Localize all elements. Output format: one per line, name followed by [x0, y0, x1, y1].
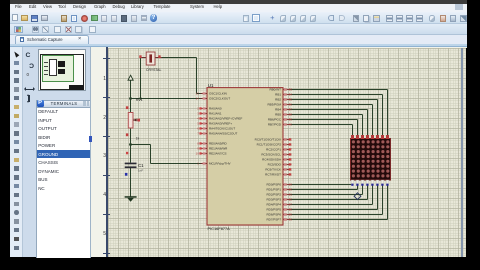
pin 30 RD7/PSP7 (right) [266, 218, 292, 222]
svg-text:14: 14 [196, 97, 200, 101]
left panel background [23, 47, 91, 257]
svg-text:RC2/CCP1: RC2/CCP1 [266, 148, 281, 152]
svg-text:RB6/PGC: RB6/PGC [268, 118, 282, 122]
pin 7 RA5/AN4/SS/C2OUT (left) [197, 132, 237, 136]
main toolbar [10, 12, 467, 24]
svg-text:RB2: RB2 [275, 98, 281, 102]
svg-text:18: 18 [289, 153, 293, 157]
svg-text:37: 37 [289, 108, 293, 112]
wire RD7 to matrix row [291, 185, 388, 220]
title bar dark strip [10, 0, 467, 4]
matrix bottom pin 11 [361, 180, 364, 186]
pin 39 RB6/PGC (right) [268, 118, 293, 122]
sheet right border [461, 48, 463, 257]
svg-text:27: 27 [289, 203, 293, 207]
wire RD5 to matrix row [291, 185, 378, 210]
svg-text:25: 25 [289, 168, 293, 172]
wire RD4 to matrix row [291, 185, 373, 205]
pin 24 RC5/SDO (right) [268, 163, 293, 167]
pin 26 RC7/RX/DT (right) [265, 173, 292, 177]
svg-text:7: 7 [197, 132, 199, 136]
wire RB3 to matrix column [291, 105, 373, 135]
svg-text:28: 28 [289, 208, 293, 212]
svg-text:OSC2/CLKOUT: OSC2/CLKOUT [209, 97, 230, 101]
band under tabs [10, 44, 467, 46]
pin 5 RA3/AN3/VREF+ (left) [197, 122, 232, 126]
matrix bottom pin 14 [376, 180, 379, 186]
wire RB6 to matrix column [291, 120, 358, 135]
svg-text:21: 21 [289, 193, 293, 197]
svg-text:35: 35 [289, 98, 293, 102]
svg-text:3: 3 [197, 112, 199, 116]
svg-text:20: 20 [289, 188, 293, 192]
svg-text:RC4/SDI/SDA: RC4/SDI/SDA [262, 158, 281, 162]
pin 9 RE1/AN6/WR (left) [197, 147, 228, 151]
matrix top pin 7 [381, 135, 384, 139]
pin 10 RE2/AN7/CS (left) [196, 152, 227, 156]
svg-text:10: 10 [196, 152, 200, 156]
pin 27 RD4/PSP4 (right) [266, 203, 292, 207]
svg-text:RD6/PSP6: RD6/PSP6 [266, 213, 281, 217]
svg-text:6: 6 [197, 127, 199, 131]
svg-text:19: 19 [289, 183, 293, 187]
power terminal [128, 75, 133, 80]
wire RD0 to matrix row [291, 184, 353, 186]
matrix bottom pin 13 [371, 180, 374, 186]
pin 37 RB4 (right) [275, 108, 292, 112]
svg-text:39: 39 [289, 118, 293, 122]
svg-text:RD2/PSP2: RD2/PSP2 [266, 193, 281, 197]
matrix top pin 5 [371, 135, 374, 139]
rotate / mirror controls [26, 52, 34, 61]
svg-text:RC3/SCK/SCL: RC3/SCK/SCL [261, 153, 281, 157]
svg-text:RA5/AN4/SS/C2OUT: RA5/AN4/SS/C2OUT [209, 132, 238, 136]
pin 33 RB0/INT (right) [269, 88, 292, 92]
svg-text:RC6/TX/CK: RC6/TX/CK [265, 168, 281, 172]
wire RB2 to matrix column [291, 100, 378, 135]
pin 3 RA1/AN1 (left) [197, 112, 222, 116]
svg-text:RD5/PSP5: RD5/PSP5 [266, 208, 281, 212]
pin 35 RB2 (right) [275, 98, 292, 102]
secondary toolbar [10, 24, 467, 35]
schematic capture tab [15, 35, 90, 44]
op: PIC16F877A body U1 [207, 88, 283, 225]
svg-text:29: 29 [289, 213, 293, 217]
cursor origin marker [354, 193, 361, 200]
ruler frame line [106, 47, 108, 257]
svg-text:RC0/T1OSO/T1CKI: RC0/T1OSO/T1CKI [255, 138, 282, 142]
matrix bottom pin 10 [356, 180, 359, 186]
svg-text:4: 4 [197, 117, 199, 121]
wire RB5 to matrix column [291, 115, 363, 135]
svg-text:RD3/PSP3: RD3/PSP3 [266, 198, 281, 202]
matrix top pin 1 [351, 135, 354, 139]
pin 19 RD0/PSP0 (right) [266, 183, 292, 187]
wire RB0 to matrix column [291, 90, 388, 135]
junction node C (RV1/C1/MCLR) [129, 143, 132, 146]
pin 28 RD5/PSP5 (right) [266, 208, 292, 212]
pin 8 RE0/AN5/RD (left) [197, 142, 227, 146]
terminals list box [36, 108, 91, 258]
svg-text:22: 22 [289, 198, 293, 202]
svg-text:RB1: RB1 [275, 93, 281, 97]
svg-text:RD7/PSP7: RD7/PSP7 [266, 218, 281, 222]
pin 1 MCLR/Vpp/THV (left) [197, 162, 230, 166]
svg-text:26: 26 [289, 173, 293, 177]
matrix top pin 8 [386, 135, 389, 139]
svg-text:36: 36 [289, 103, 293, 107]
svg-text:RA3/AN3/VREF+: RA3/AN3/VREF+ [209, 122, 232, 126]
svg-text:RB0/INT: RB0/INT [269, 88, 281, 92]
pin 4 RA2/AN2/VREF-/CVREF (left) [197, 117, 242, 121]
pin 18 RC3/SCK/SCL (right) [261, 153, 292, 157]
matrix top pin 2 [356, 135, 359, 139]
svg-text:RB4: RB4 [275, 108, 281, 112]
wire RD2 to matrix row [291, 185, 363, 195]
svg-text:RC5/SDO: RC5/SDO [268, 163, 282, 167]
svg-text:38: 38 [289, 113, 293, 117]
wire RB1 to matrix column [291, 95, 383, 135]
svg-text:MCLR/Vpp/THV: MCLR/Vpp/THV [209, 162, 231, 166]
pin 36 RB3/PGM (right) [267, 103, 292, 107]
svg-text:OSC1/CLKIN: OSC1/CLKIN [209, 92, 227, 96]
svg-text:RE1/AN6/WR: RE1/AN6/WR [209, 147, 228, 151]
document tab bar [10, 35, 467, 45]
wire: C1 to ground [130, 168, 132, 196]
left mode toolbar [10, 47, 23, 257]
wire: RV1 bottom to C1 / MCLR [130, 128, 132, 163]
svg-text:2: 2 [197, 107, 199, 111]
matrix top pin 3 [361, 135, 364, 139]
pin 6 RA4/T0CKI/C1OUT (left) [197, 127, 235, 131]
svg-text:13: 13 [196, 92, 200, 96]
pin 15 RC0/T1OSO/T1CKI (right) [255, 138, 293, 142]
black frame edges [0, 0, 10, 270]
pin 21 RD2/PSP2 (right) [266, 193, 292, 197]
wire RD6 to matrix row [291, 185, 383, 215]
sheet margin (top) [107, 47, 467, 48]
ruler position marker [89, 136, 92, 142]
LED matrix MX1 body [351, 139, 391, 181]
svg-text:RD0/PSP0: RD0/PSP0 [266, 183, 281, 187]
pin 17 RC2/CCP1 (right) [266, 148, 292, 152]
power rail wire [130, 80, 132, 112]
schematic overview preview [38, 49, 86, 91]
pin 16 RC1/T1OSI/CCP2 (right) [257, 143, 293, 147]
svg-text:5: 5 [197, 122, 199, 126]
matrix bottom pin 16 [386, 180, 389, 186]
crystal X1 [139, 52, 162, 65]
wire: crystal pin1 to OSC2 net [131, 58, 208, 99]
svg-text:24: 24 [289, 163, 293, 167]
svg-text:CRYSTAL: CRYSTAL [146, 68, 161, 72]
wire RD3 to matrix row [291, 185, 368, 200]
pin 34 RB1 (right) [275, 93, 292, 97]
svg-text:33: 33 [289, 88, 293, 92]
pin 13 OSC1/CLKIN (left) [196, 92, 227, 96]
wire RB7 to matrix column [291, 125, 353, 135]
svg-text:RA2/AN2/VREF-/CVREF: RA2/AN2/VREF-/CVREF [209, 117, 243, 121]
matrix top pin 6 [376, 135, 379, 139]
wire RD1 to matrix row [291, 185, 358, 190]
matrix bottom pin 12 [366, 180, 369, 186]
svg-text:RD1/PSP1: RD1/PSP1 [266, 188, 281, 192]
svg-text:17: 17 [289, 148, 293, 152]
pin 23 RC4/SDI/SDA (right) [262, 158, 292, 162]
svg-text:RB7/PGD: RB7/PGD [268, 123, 282, 127]
svg-text:9: 9 [197, 147, 199, 151]
panel divider [89, 47, 92, 257]
svg-text:RD4/PSP4: RD4/PSP4 [266, 203, 281, 207]
matrix bottom pin 9 [351, 180, 354, 186]
svg-text:C1: C1 [138, 163, 144, 168]
svg-text:40: 40 [289, 123, 293, 127]
pin 25 RC6/TX/CK (right) [265, 168, 292, 172]
svg-text:RV1: RV1 [136, 98, 143, 102]
resistor RV1 (pot) [126, 106, 140, 136]
svg-text:23: 23 [289, 158, 293, 162]
svg-text:RA4/T0CKI/C1OUT: RA4/T0CKI/C1OUT [209, 127, 235, 131]
menu bar [10, 4, 467, 12]
svg-text:34: 34 [289, 93, 293, 97]
pin 38 RB5 (right) [275, 113, 292, 117]
wire RB4 to matrix column [291, 110, 368, 135]
schematic grid sheet [108, 48, 467, 257]
wire: crystal pin2 to OSC1 [162, 58, 207, 94]
wire: node to MCLR pin [131, 145, 208, 164]
pin 20 RD1/PSP1 (right) [266, 188, 292, 192]
svg-text:RC7/RX/DT: RC7/RX/DT [265, 173, 281, 177]
pin 2 RA0/AN0 (left) [197, 107, 222, 111]
svg-text:16: 16 [289, 143, 293, 147]
terminals list header [36, 100, 91, 108]
svg-text:RE2/AN7/CS: RE2/AN7/CS [209, 152, 227, 156]
pin 40 RB7/PGD (right) [268, 123, 293, 127]
svg-text:RA0/AN0: RA0/AN0 [209, 107, 222, 111]
matrix top pin 4 [366, 135, 369, 139]
svg-text:PIC16F877A: PIC16F877A [208, 226, 231, 231]
svg-text:RA1/AN1: RA1/AN1 [209, 112, 222, 116]
junction node B (crystal/OSC2 wire) [139, 97, 141, 99]
pin 14 OSC2/CLKOUT (left) [196, 97, 231, 101]
pin 29 RD6/PSP6 (right) [266, 213, 292, 217]
pin 22 RD3/PSP3 (right) [266, 198, 292, 202]
svg-text:1k: 1k [136, 137, 140, 141]
svg-text:RC1/T1OSI/CCP2: RC1/T1OSI/CCP2 [257, 143, 282, 147]
junction node A (power/RV1/OSC2) [129, 97, 132, 100]
sheet margin ruler (left) [91, 47, 107, 257]
svg-text:U1: U1 [208, 83, 214, 88]
svg-text:15: 15 [289, 138, 293, 142]
matrix bottom pin 15 [381, 180, 384, 186]
svg-text:1nF: 1nF [138, 168, 143, 172]
svg-text:30: 30 [289, 218, 293, 222]
svg-text:RE0/AN5/RD: RE0/AN5/RD [209, 142, 228, 146]
svg-text:RB3/PGM: RB3/PGM [267, 103, 281, 107]
svg-text:8: 8 [197, 142, 199, 146]
svg-text:RB5: RB5 [275, 113, 281, 117]
capacitor C1 [125, 152, 137, 176]
ground terminal [125, 196, 137, 202]
